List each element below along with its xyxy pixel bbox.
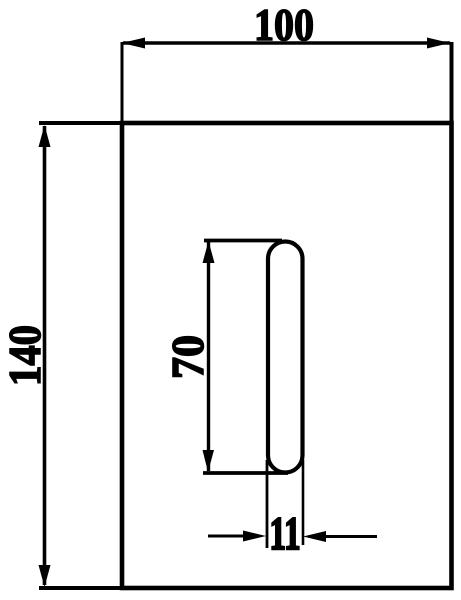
arrowhead dim 100 right (427, 38, 450, 49)
arrowhead dim 140 top (39, 125, 51, 147)
svg-text:100: 100 (254, 0, 314, 50)
extension line top of dim 70 (204, 239, 282, 243)
arrowhead dim 70 top (203, 241, 215, 263)
arrowhead dim 140 bottom (39, 565, 51, 587)
extension line bottom of dim 140 (39, 586, 122, 590)
arrowhead dim 100 left (122, 38, 145, 49)
extension line left of dim 100 (121, 42, 124, 123)
extension line right of dim 11 (302, 460, 305, 545)
svg-text:11: 11 (270, 508, 301, 560)
dimension line 100 (123, 41, 450, 45)
arrowhead dim 70 bottom (203, 450, 215, 472)
dimension line 140 (43, 126, 47, 585)
extension line right of dim 100 (450, 42, 454, 123)
slot (stadium hole) (268, 242, 303, 473)
extension line left of dim 11 (266, 460, 269, 548)
dimension line 11 left segment (208, 535, 248, 538)
svg-text:140: 140 (0, 325, 50, 386)
svg-text:70: 70 (163, 335, 213, 379)
extension line top of dim 140 (39, 121, 122, 125)
extension line bottom of dim 70 (203, 471, 288, 475)
dimension line 11 right segment (320, 535, 377, 538)
arrowhead dim 11 right (303, 531, 326, 542)
plate outline (122, 123, 452, 588)
arrowhead dim 11 left (243, 531, 266, 542)
dimension line 70 (207, 242, 210, 471)
